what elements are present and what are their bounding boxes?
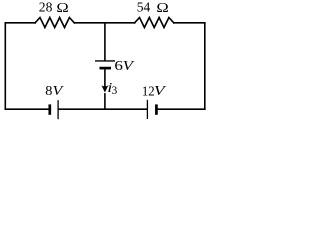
svg-text:Ω: Ω [156, 1, 168, 16]
svg-text:28: 28 [39, 0, 53, 15]
battery B1 6V short thick plate [100, 67, 112, 70]
svg-text:V: V [123, 58, 135, 73]
resistor R1 28 ohm zigzag [35, 18, 74, 28]
wire bottom rail middle segment [59, 108, 147, 110]
wire middle branch below arrow [104, 94, 106, 109]
battery B2 8V thick plate [48, 104, 51, 114]
svg-text:3: 3 [112, 85, 118, 97]
battery B2 8V long thin plate [57, 100, 59, 119]
wire top rail middle segment [74, 22, 134, 24]
wire top rail left segment [5, 22, 35, 24]
current arrow i3 head [102, 85, 109, 92]
svg-text:54: 54 [137, 0, 151, 15]
battery B3 12V long thin plate [146, 100, 148, 119]
wire top rail right segment [174, 22, 205, 24]
current arrow i3 shaft [104, 70, 106, 91]
svg-text:12: 12 [142, 83, 155, 98]
wire left vertical [4, 23, 6, 109]
wire right vertical [204, 23, 206, 109]
svg-text:8: 8 [45, 84, 52, 99]
wire bottom rail right segment [158, 108, 205, 110]
wire bottom rail left segment [5, 108, 48, 110]
resistor R2 54 ohm zigzag [135, 18, 174, 28]
battery B3 12V thick plate [155, 104, 158, 114]
wire middle branch upper [104, 23, 106, 61]
svg-text:Ω: Ω [56, 1, 68, 16]
battery B1 6V long plate [95, 60, 115, 62]
